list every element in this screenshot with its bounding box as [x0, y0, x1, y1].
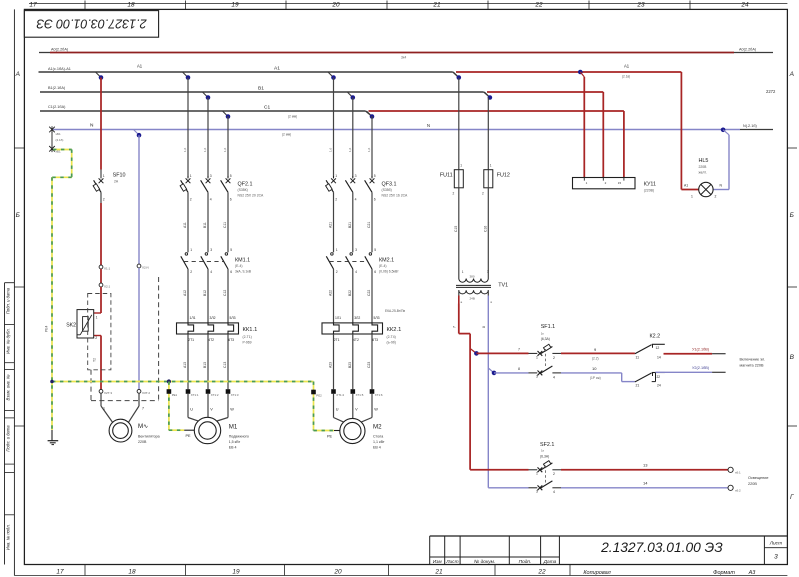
svg-text:2: 2	[553, 356, 555, 360]
svg-text:(2.1в): (2.1в)	[622, 75, 630, 79]
svg-text:3Л2: 3Л2	[354, 316, 360, 320]
svg-text:2: 2	[335, 198, 337, 202]
svg-text:Подп.: Подп.	[519, 559, 532, 565]
svg-text:PE: PE	[327, 435, 333, 439]
svg-text:В1: В1	[258, 86, 264, 92]
svg-text:КУ11: КУ11	[644, 182, 656, 188]
svg-text:3: 3	[536, 490, 538, 494]
svg-text:С1(2.1бА): С1(2.1бА)	[48, 105, 66, 109]
svg-text:Б: Б	[790, 212, 794, 219]
svg-text:220В: 220В	[699, 165, 708, 169]
svg-text:х6:2: х6:2	[735, 489, 741, 493]
svg-text:8: 8	[518, 367, 520, 371]
svg-text:Формат: Формат	[713, 570, 735, 576]
svg-text:В11: В11	[203, 222, 207, 228]
svg-text:1: 1	[691, 195, 693, 199]
svg-text:7: 7	[142, 407, 144, 411]
svg-text:Лист: Лист	[445, 559, 458, 565]
svg-text:NS2 25Х 16 2СА: NS2 25Х 16 2СА	[382, 194, 408, 198]
svg-text:ХТ1:4: ХТ1:4	[336, 393, 344, 397]
svg-text:3: 3	[536, 375, 538, 379]
svg-text:PE1: PE1	[172, 393, 178, 397]
svg-text:6Т3: 6Т3	[228, 338, 234, 342]
svg-text:V: V	[210, 408, 213, 412]
svg-text:2: 2	[103, 198, 105, 202]
svg-text:С11: С11	[223, 222, 227, 228]
svg-text:хБ1: хБ1	[56, 132, 61, 136]
svg-text:N(.2.1б): N(.2.1б)	[743, 124, 758, 128]
svg-text:NS2 25Х 20 2СА: NS2 25Х 20 2СА	[238, 194, 264, 198]
svg-text:1,5 кВт: 1,5 кВт	[229, 440, 241, 444]
svg-text:(Е-4): (Е-4)	[235, 264, 243, 268]
svg-text:10: 10	[592, 366, 597, 371]
svg-text:(6,3А): (6,3А)	[541, 337, 550, 341]
svg-text:А22: А22	[329, 290, 333, 296]
svg-text:В: В	[790, 354, 795, 361]
svg-text:Б: Б	[16, 212, 20, 219]
svg-text:В22: В22	[348, 290, 352, 296]
svg-text:1: 1	[190, 248, 192, 252]
svg-text:(2-Т4): (2-Т4)	[387, 335, 396, 339]
svg-text:3: 3	[774, 554, 778, 561]
svg-text:(Ь-9б): (Ь-9б)	[387, 340, 396, 344]
svg-text:220В: 220В	[138, 440, 147, 444]
svg-text:А1: А1	[684, 184, 688, 188]
svg-text:13: 13	[643, 463, 648, 468]
svg-text:3кА, 9,1кВ: 3кА, 9,1кВ	[235, 270, 252, 274]
svg-text:6: 6	[230, 270, 232, 274]
svg-text:7: 7	[518, 348, 520, 352]
svg-text:Включение эл.: Включение эл.	[740, 358, 766, 362]
svg-text:21: 21	[434, 569, 443, 576]
svg-text:W: W	[374, 408, 378, 412]
svg-text:А: А	[15, 71, 20, 78]
svg-text:3: 3	[355, 248, 357, 252]
svg-text:2.1327.03.01.00 ЭЗ: 2.1327.03.01.00 ЭЗ	[36, 16, 148, 30]
svg-text:С16: С16	[483, 226, 487, 232]
svg-text:1: 1	[190, 174, 192, 178]
svg-text:А: А	[789, 71, 794, 78]
svg-text:№ докум.: № докум.	[474, 559, 495, 565]
svg-text:2: 2	[715, 195, 717, 199]
svg-text:У1(2.1бВ): У1(2.1бВ)	[692, 348, 710, 352]
svg-text:12: 12	[656, 346, 660, 350]
svg-text:Х1:1: Х1:1	[104, 267, 111, 271]
svg-text:Х2:N: Х2:N	[142, 266, 149, 270]
svg-text:А1(с.1бА)-А1: А1(с.1бА)-А1	[48, 67, 71, 71]
svg-text:QF2.1: QF2.1	[238, 182, 253, 188]
svg-text:М2: М2	[373, 424, 382, 431]
svg-text:С22: С22	[367, 290, 371, 296]
svg-text:ЕВ 4: ЕВ 4	[373, 446, 381, 450]
svg-text:N: N	[90, 123, 94, 129]
svg-text:PE: PE	[186, 434, 192, 438]
svg-text:А1: А1	[137, 64, 143, 69]
svg-text:4Т2: 4Т2	[208, 338, 214, 342]
svg-text:SF2.1: SF2.1	[540, 442, 554, 448]
svg-text:(2.1б): (2.1б)	[56, 138, 64, 142]
svg-text:24: 24	[740, 2, 749, 9]
svg-text:3: 3	[355, 174, 357, 178]
svg-text:ЕКА-25-Вт/Пв: ЕКА-25-Вт/Пв	[385, 309, 405, 313]
svg-text:1: 1	[460, 164, 462, 168]
svg-text:2.1327.03.01.00 ЭЗ: 2.1327.03.01.00 ЭЗ	[600, 540, 723, 555]
svg-text:(1Р сж): (1Р сж)	[590, 376, 601, 380]
svg-text:С1: С1	[264, 105, 270, 111]
svg-text:Подп. и дата: Подп. и дата	[6, 425, 11, 452]
svg-text:А1: А1	[274, 66, 280, 72]
svg-text:А11: А11	[183, 222, 187, 228]
svg-text:2: 2	[95, 336, 97, 340]
svg-text:А3: А3	[748, 570, 757, 576]
svg-text:А23: А23	[329, 362, 333, 368]
svg-text:Освещение: Освещение	[748, 476, 768, 480]
svg-text:1,б: 1,б	[367, 147, 371, 152]
svg-text:С23: С23	[367, 362, 371, 368]
svg-text:В21: В21	[348, 222, 352, 228]
svg-text:2: 2	[487, 270, 489, 274]
svg-text:(2.2): (2.2)	[592, 357, 599, 361]
svg-text:КМ1.1: КМ1.1	[235, 258, 250, 264]
svg-text:Х2Т:3: Х2Т:3	[104, 391, 112, 395]
svg-text:магнита 220В: магнита 220В	[740, 364, 765, 368]
svg-text:(S35б): (S35б)	[382, 188, 392, 192]
svg-text:А13: А13	[183, 362, 187, 368]
svg-text:(2-Т1): (2-Т1)	[243, 335, 252, 339]
svg-text:Стола: Стола	[373, 435, 383, 439]
svg-text:1,б: 1,б	[329, 147, 333, 152]
svg-text:1,б: 1,б	[348, 147, 352, 152]
svg-text:1: 1	[103, 407, 105, 411]
svg-text:1: 1	[335, 174, 337, 178]
svg-text:18: 18	[128, 569, 136, 576]
svg-text:М∿: М∿	[138, 423, 148, 430]
svg-text:19: 19	[232, 569, 240, 576]
svg-text:22: 22	[537, 569, 546, 576]
svg-text:Инв. № дубл.: Инв. № дубл.	[6, 328, 11, 354]
svg-text:ЕВ 4: ЕВ 4	[229, 446, 237, 450]
svg-text:2: 2	[553, 472, 555, 476]
svg-text:В13: В13	[203, 362, 207, 368]
svg-text:5: 5	[374, 248, 376, 252]
svg-text:1Л1: 1Л1	[335, 316, 341, 320]
svg-text:КК1.1: КК1.1	[243, 327, 258, 333]
svg-text:20: 20	[333, 569, 342, 576]
svg-text:380: 380	[470, 275, 475, 279]
svg-text:Х3Т:2: Х3Т:2	[142, 391, 150, 395]
svg-text:5: 5	[230, 248, 232, 252]
svg-text:4: 4	[553, 490, 555, 494]
svg-text:С21: С21	[367, 222, 371, 228]
svg-text:FU11: FU11	[440, 173, 453, 179]
svg-text:ХТ1:3: ХТ1:3	[231, 393, 239, 397]
svg-text:17: 17	[29, 2, 37, 9]
svg-text:11: 11	[636, 356, 640, 360]
svg-text:Т2: Т2	[93, 358, 97, 362]
svg-text:2А: 2А	[114, 180, 119, 184]
svg-text:14: 14	[643, 481, 648, 486]
svg-text:SK2: SK2	[66, 323, 76, 329]
svg-text:14: 14	[657, 356, 661, 360]
svg-text:4: 4	[355, 270, 357, 274]
svg-text:220В: 220В	[748, 482, 757, 486]
svg-text:(6,3А): (6,3А)	[540, 455, 549, 459]
svg-text:6Т3: 6Т3	[372, 338, 378, 342]
svg-text:1: 1	[536, 356, 538, 360]
svg-text:7: 7	[453, 326, 457, 328]
svg-text:24В: 24В	[470, 297, 475, 301]
svg-text:желт.: желт.	[699, 171, 707, 175]
svg-text:PE2: PE2	[316, 394, 322, 398]
svg-text:С15: С15	[454, 226, 458, 232]
svg-text:4Т2: 4Т2	[353, 338, 359, 342]
svg-text:КК2.1: КК2.1	[387, 327, 402, 333]
svg-text:Лист: Лист	[769, 541, 782, 547]
svg-text:ХТ1:5: ХТ1:5	[356, 393, 364, 397]
svg-text:(Е-4): (Е-4)	[379, 264, 387, 268]
svg-text:1,б: 1,б	[223, 147, 227, 152]
svg-text:(S35К): (S35К)	[238, 188, 248, 192]
svg-text:А21: А21	[329, 222, 333, 228]
svg-text:U: U	[336, 408, 339, 412]
svg-text:1: 1	[336, 248, 338, 252]
svg-text:2Т1: 2Т1	[334, 338, 340, 342]
svg-text:2: 2	[453, 192, 455, 196]
svg-text:1: 1	[103, 174, 105, 178]
svg-text:С12: С12	[223, 290, 227, 296]
svg-text:SF10: SF10	[113, 173, 126, 179]
svg-text:4: 4	[553, 376, 555, 380]
svg-text:2Т1: 2Т1	[188, 338, 194, 342]
svg-text:U: U	[190, 408, 193, 412]
svg-text:Взам. инв. №: Взам. инв. №	[6, 374, 11, 400]
svg-text:Дата: Дата	[543, 559, 557, 565]
svg-text:6: 6	[374, 198, 376, 202]
svg-text:4: 4	[355, 198, 357, 202]
svg-text:4: 4	[210, 270, 212, 274]
svg-text:HL5: HL5	[699, 158, 709, 164]
svg-text:5Л3: 5Л3	[374, 316, 380, 320]
svg-text:У2(2.1бВ): У2(2.1бВ)	[692, 366, 710, 370]
svg-text:А1: А1	[624, 64, 630, 69]
svg-text:20: 20	[331, 2, 340, 9]
svg-text:21: 21	[432, 2, 441, 9]
svg-text:2: 2	[482, 192, 484, 196]
svg-text:6: 6	[230, 198, 232, 202]
svg-text:22: 22	[534, 2, 543, 9]
svg-text:Подвижного: Подвижного	[229, 435, 249, 439]
svg-text:1Л1: 1Л1	[190, 316, 196, 320]
svg-text:ХТ1:1: ХТ1:1	[191, 393, 199, 397]
svg-text:х6:1: х6:1	[735, 471, 741, 475]
svg-text:С13: С13	[223, 362, 227, 368]
svg-text:Копировал: Копировал	[583, 570, 610, 576]
svg-text:А0(2.2бА): А0(2.2бА)	[51, 48, 69, 52]
svg-text:15: 15	[618, 181, 622, 185]
svg-text:QF3.1: QF3.1	[382, 182, 397, 188]
svg-text:SF1.1: SF1.1	[541, 324, 555, 330]
svg-text:РЕ4: РЕ4	[45, 325, 49, 332]
svg-text:Вентилятора: Вентилятора	[138, 435, 160, 439]
svg-text:FU12: FU12	[497, 173, 510, 179]
svg-text:19: 19	[231, 2, 239, 9]
svg-text:5: 5	[374, 174, 376, 178]
svg-text:(0,06) 6,5кВт: (0,06) 6,5кВт	[379, 270, 399, 274]
svg-text:8: 8	[482, 326, 486, 328]
svg-text:3: 3	[210, 174, 212, 178]
svg-text:5: 5	[230, 174, 232, 178]
svg-text:ХТ1:6: ХТ1:6	[375, 393, 383, 397]
svg-text:2272: 2272	[766, 89, 776, 94]
svg-text:V: V	[355, 408, 358, 412]
svg-text:А12: А12	[183, 290, 187, 296]
svg-text:22: 22	[657, 375, 661, 379]
svg-text:1,1 кВт: 1,1 кВт	[373, 440, 385, 444]
svg-text:(2 мм): (2 мм)	[282, 133, 291, 137]
svg-text:М1: М1	[229, 424, 238, 431]
svg-text:6: 6	[374, 270, 376, 274]
svg-text:4: 4	[210, 198, 212, 202]
svg-text:Изм: Изм	[433, 559, 443, 565]
svg-text:5Л3: 5Л3	[230, 316, 236, 320]
svg-text:18: 18	[127, 2, 135, 9]
svg-text:2: 2	[336, 270, 338, 274]
svg-text:W: W	[230, 408, 234, 412]
svg-text:В12: В12	[203, 290, 207, 296]
svg-text:21: 21	[636, 384, 640, 388]
svg-text:1: 1	[462, 270, 464, 274]
svg-text:В23: В23	[348, 362, 352, 368]
svg-text:К2.2: К2.2	[650, 334, 661, 340]
svg-text:3Л2: 3Л2	[210, 316, 216, 320]
svg-text:17: 17	[56, 569, 64, 576]
svg-text:1,б: 1,б	[183, 147, 187, 152]
svg-text:Подп. и дата: Подп. и дата	[6, 287, 11, 314]
svg-text:ХТ1:2: ХТ1:2	[211, 393, 219, 397]
svg-text:(220В): (220В)	[644, 189, 654, 193]
svg-text:В1(2.1бА): В1(2.1бА)	[48, 86, 66, 90]
svg-text:23: 23	[636, 2, 645, 9]
svg-text:N: N	[427, 123, 430, 128]
svg-text:КМ2.1: КМ2.1	[379, 258, 394, 264]
svg-text:А0(2.2бА): А0(2.2бА)	[739, 48, 757, 52]
svg-text:ТV1: ТV1	[498, 283, 508, 289]
svg-text:Р-969: Р-969	[243, 340, 252, 344]
svg-text:Х2:1: Х2:1	[104, 285, 111, 289]
svg-text:1: 1	[96, 316, 98, 320]
svg-text:1,б: 1,б	[203, 147, 207, 152]
svg-text:Г: Г	[790, 494, 794, 501]
svg-text:24: 24	[657, 384, 661, 388]
svg-text:1: 1	[490, 164, 492, 168]
svg-text:(2 мм): (2 мм)	[288, 115, 297, 119]
svg-text:3: 3	[210, 248, 212, 252]
svg-text:Инв. № подл.: Инв. № подл.	[6, 524, 11, 550]
svg-text:2: 2	[190, 270, 192, 274]
svg-text:2: 2	[190, 198, 192, 202]
svg-text:3х4: 3х4	[401, 56, 406, 60]
svg-text:1: 1	[536, 472, 538, 476]
